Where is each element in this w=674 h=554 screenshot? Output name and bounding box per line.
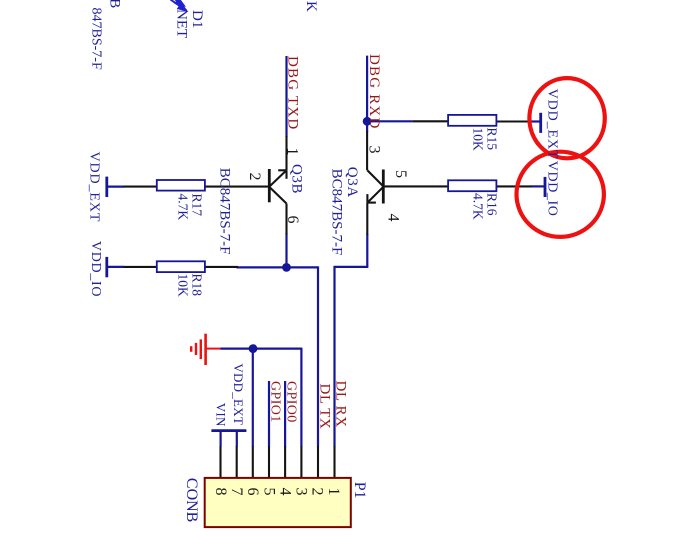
svg-text:1: 1: [325, 488, 342, 496]
svg-text:VDD_EXT: VDD_EXT: [231, 363, 246, 425]
svg-text:847BS-7-F: 847BS-7-F: [89, 8, 104, 70]
svg-text:5: 5: [260, 488, 277, 496]
svg-text:BC847BS-7-F: BC847BS-7-F: [217, 168, 233, 255]
svg-text:6: 6: [244, 488, 261, 496]
svg-text:CONB: CONB: [183, 478, 200, 522]
svg-text:R18: R18: [190, 274, 205, 297]
svg-text:4: 4: [276, 488, 293, 496]
svg-text:DBG RXD: DBG RXD: [366, 54, 382, 130]
svg-text:VDD_EXT: VDD_EXT: [87, 152, 102, 223]
svg-text:VDD_EXT: VDD_EXT: [544, 89, 559, 160]
svg-text:B: B: [107, 0, 123, 8]
svg-text:Q3B: Q3B: [289, 164, 305, 194]
svg-text:GPIO0: GPIO0: [284, 381, 299, 423]
svg-text:4: 4: [385, 214, 402, 222]
svg-text:4.7K: 4.7K: [471, 193, 486, 220]
svg-text:10K: 10K: [471, 128, 486, 152]
svg-text:VDD_IO: VDD_IO: [545, 161, 560, 217]
svg-text:VIN: VIN: [213, 403, 228, 427]
svg-text:BC847BS-7-F: BC847BS-7-F: [329, 169, 345, 256]
svg-text:R15: R15: [485, 128, 500, 151]
svg-text:1: 1: [284, 148, 301, 156]
svg-text:R17: R17: [190, 194, 205, 217]
svg-text:DL RX: DL RX: [333, 381, 349, 428]
svg-text:DBG TXD: DBG TXD: [285, 56, 301, 130]
svg-text:VDD_IO: VDD_IO: [88, 241, 103, 297]
svg-text:4.7K: 4.7K: [176, 194, 191, 221]
svg-text:R16: R16: [485, 193, 500, 216]
svg-text:7: 7: [228, 488, 245, 496]
svg-text:K: K: [303, 1, 319, 12]
svg-text:2: 2: [246, 173, 263, 181]
svg-text:2: 2: [309, 488, 326, 496]
svg-text:D1: D1: [189, 10, 205, 28]
svg-text:5: 5: [392, 170, 409, 178]
svg-text:3: 3: [366, 146, 383, 154]
svg-text:DL TX: DL TX: [317, 384, 333, 430]
svg-text:10K: 10K: [176, 274, 191, 298]
svg-text:P1: P1: [351, 482, 368, 499]
svg-text:Q3A: Q3A: [344, 167, 360, 198]
svg-text:6: 6: [284, 216, 301, 224]
svg-text:8: 8: [212, 488, 229, 496]
svg-text:3: 3: [293, 488, 310, 496]
svg-text:GPIO1: GPIO1: [268, 381, 283, 423]
svg-text:NET: NET: [174, 9, 190, 38]
